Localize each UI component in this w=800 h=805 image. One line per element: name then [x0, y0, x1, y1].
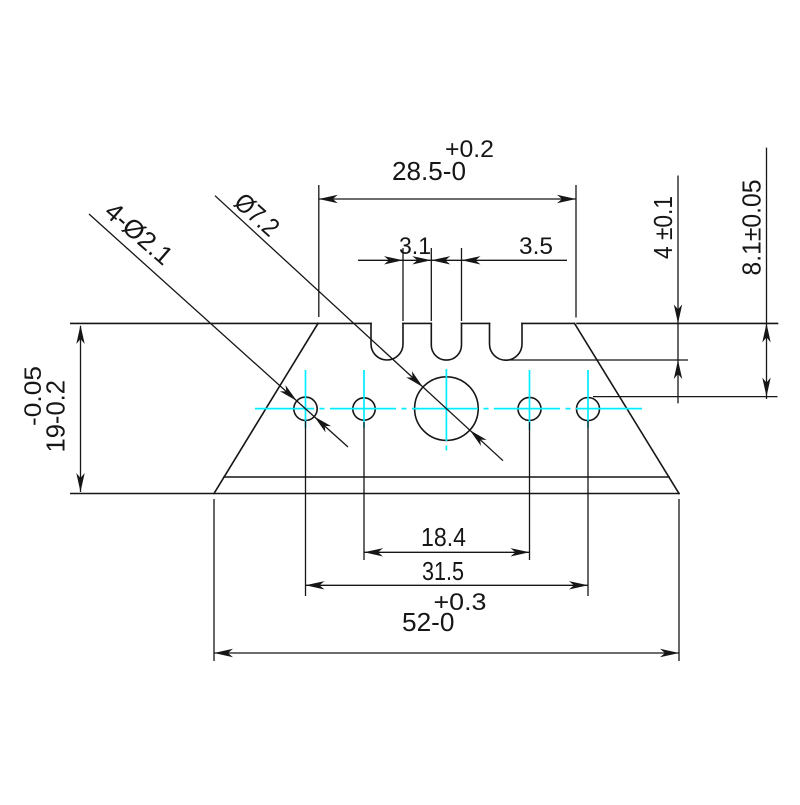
31.5 dimension line — [306, 584, 589, 586]
leader line dia7.2 to center hole — [215, 196, 503, 461]
52 extension lines — [213, 499, 215, 661]
svg-text:31.5: 31.5 — [422, 556, 464, 586]
notch 3 — [490, 323, 523, 360]
blade top edge with extension to left (19-dim) and right (4/8.1-dim) — [71, 322, 371, 324]
notch 2 — [431, 323, 461, 360]
arrow 28.5 right — [557, 195, 576, 203]
arrow 28.5 left — [319, 195, 338, 203]
arrow 52 left — [214, 649, 233, 657]
svg-text:+0.2: +0.2 — [445, 136, 494, 163]
svg-text:3.5: 3.5 — [519, 233, 553, 260]
arrow 31.5 left — [306, 581, 325, 589]
28.5 dimension line — [319, 198, 576, 200]
3.1 / 3.5 dimension line — [358, 259, 567, 261]
hole-top extension line (8.1 dim) — [593, 396, 778, 398]
hole H4 — [518, 397, 541, 420]
svg-text:4 ±0.1: 4 ±0.1 — [648, 196, 678, 259]
arrow on center hole upper-left edge (pointing down-right) — [406, 371, 426, 390]
blade right slant edge — [575, 323, 680, 493]
31.5 extension lines — [305, 421, 307, 596]
blade left slant edge — [214, 323, 318, 493]
notch 1 — [371, 323, 403, 360]
vertical center line of center hole — [445, 369, 447, 451]
18.4 extension lines — [363, 422, 365, 560]
18.4 dimension line — [364, 551, 530, 553]
arrow on center hole lower-right edge (pointing up-left) — [467, 427, 487, 446]
8.1 +-0.05 dimension line — [766, 148, 768, 399]
svg-text:-0.05: -0.05 — [20, 366, 47, 426]
arrow 8.1dim top (pointing up) — [762, 323, 770, 342]
hole H2 — [353, 398, 375, 420]
arrow on hole H1 lower-right edge (pointing up-left) — [311, 413, 331, 432]
vertical center line hole H4 — [529, 370, 531, 430]
28.5 dim extension lines — [318, 185, 320, 317]
horizontal center line through holes — [255, 408, 648, 410]
4 +-0.1 dimension line — [677, 176, 679, 404]
svg-text:8.1±0.05: 8.1±0.05 — [737, 180, 767, 276]
arrow 3.1 left (outside, pointing right) — [384, 256, 403, 264]
arrow 31.5 right — [569, 581, 588, 589]
vertical center line hole H1 — [305, 370, 307, 428]
hole H1 — [294, 397, 317, 420]
arrow on hole H1 upper-left edge (pointing down-right) — [280, 385, 300, 404]
vertical center line hole H2 — [363, 370, 365, 428]
arrow 19dim top (pointing up) — [76, 325, 84, 344]
arrow 3.5 right (pointing left) — [462, 256, 481, 264]
notch-bottom extension line — [504, 359, 688, 361]
arrow 18.4 left — [364, 548, 383, 556]
cyan center lines — [255, 369, 648, 451]
3.1 / 3.5 extension lines — [402, 248, 404, 321]
arrow 4dim bottom (pointing up) — [674, 360, 682, 379]
vertical center line hole H5 — [587, 370, 589, 428]
arrow 4dim top (pointing down) — [674, 304, 682, 323]
arrow 3.1 right (pointing left) — [431, 256, 450, 264]
arrow 52 right — [660, 649, 679, 657]
svg-text:52-0: 52-0 — [402, 607, 455, 637]
blade bottom edge with extension to left — [71, 493, 679, 495]
arrow 3.5 left (inside span of 3.1, pointing right) — [412, 256, 431, 264]
arrow 18.4 right — [511, 548, 530, 556]
leader line 4-dia2.1 to hole H1 — [89, 214, 348, 447]
svg-text:18.4: 18.4 — [421, 522, 466, 552]
center hole (7.2) — [415, 377, 479, 441]
blade bevel (cutting edge) line — [224, 476, 669, 478]
arrow 8.1dim bottom (pointing down) — [762, 378, 770, 397]
52 dimension line — [214, 652, 679, 654]
svg-text:3.1: 3.1 — [399, 233, 431, 260]
svg-text:Ø7.2: Ø7.2 — [228, 187, 285, 243]
19 dimension line — [80, 326, 82, 492]
hole H5 — [577, 398, 600, 421]
arrow 19dim bottom (pointing down) — [76, 473, 84, 492]
